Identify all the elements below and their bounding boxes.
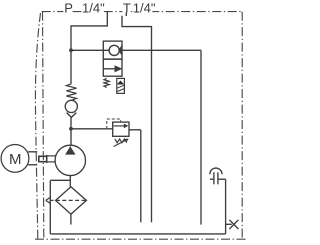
svg-text:1/4": 1/4" [82,0,105,15]
svg-text:T: T [123,0,131,15]
svg-text:1/4": 1/4" [133,0,156,15]
svg-text:P: P [64,0,73,15]
svg-text:M: M [9,151,22,168]
